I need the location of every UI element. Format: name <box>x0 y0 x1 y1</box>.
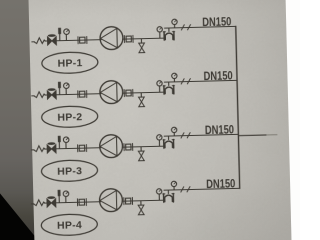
svg-text:HP-2: HP-2 <box>57 111 82 124</box>
svg-text:DN150: DN150 <box>206 177 235 191</box>
svg-text:HP-1: HP-1 <box>57 57 82 70</box>
svg-text:HP-4: HP-4 <box>57 219 82 232</box>
svg-text:DN150: DN150 <box>202 16 231 30</box>
svg-text:HP-3: HP-3 <box>57 165 82 178</box>
svg-text:DN150: DN150 <box>203 70 232 84</box>
svg-text:DN150: DN150 <box>205 124 234 138</box>
